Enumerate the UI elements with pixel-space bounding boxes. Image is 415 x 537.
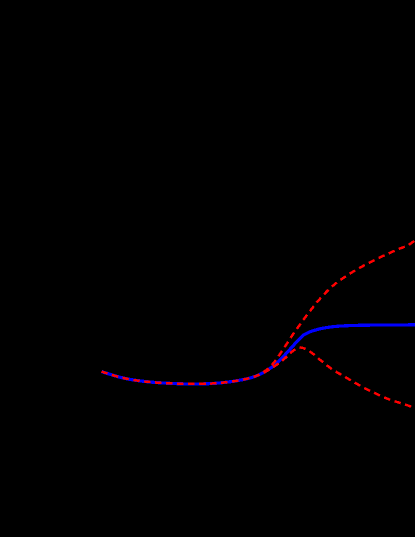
red dashed lower curve <box>102 347 414 407</box>
red dashed upper curve <box>102 240 415 384</box>
blue solid curve <box>102 325 415 384</box>
